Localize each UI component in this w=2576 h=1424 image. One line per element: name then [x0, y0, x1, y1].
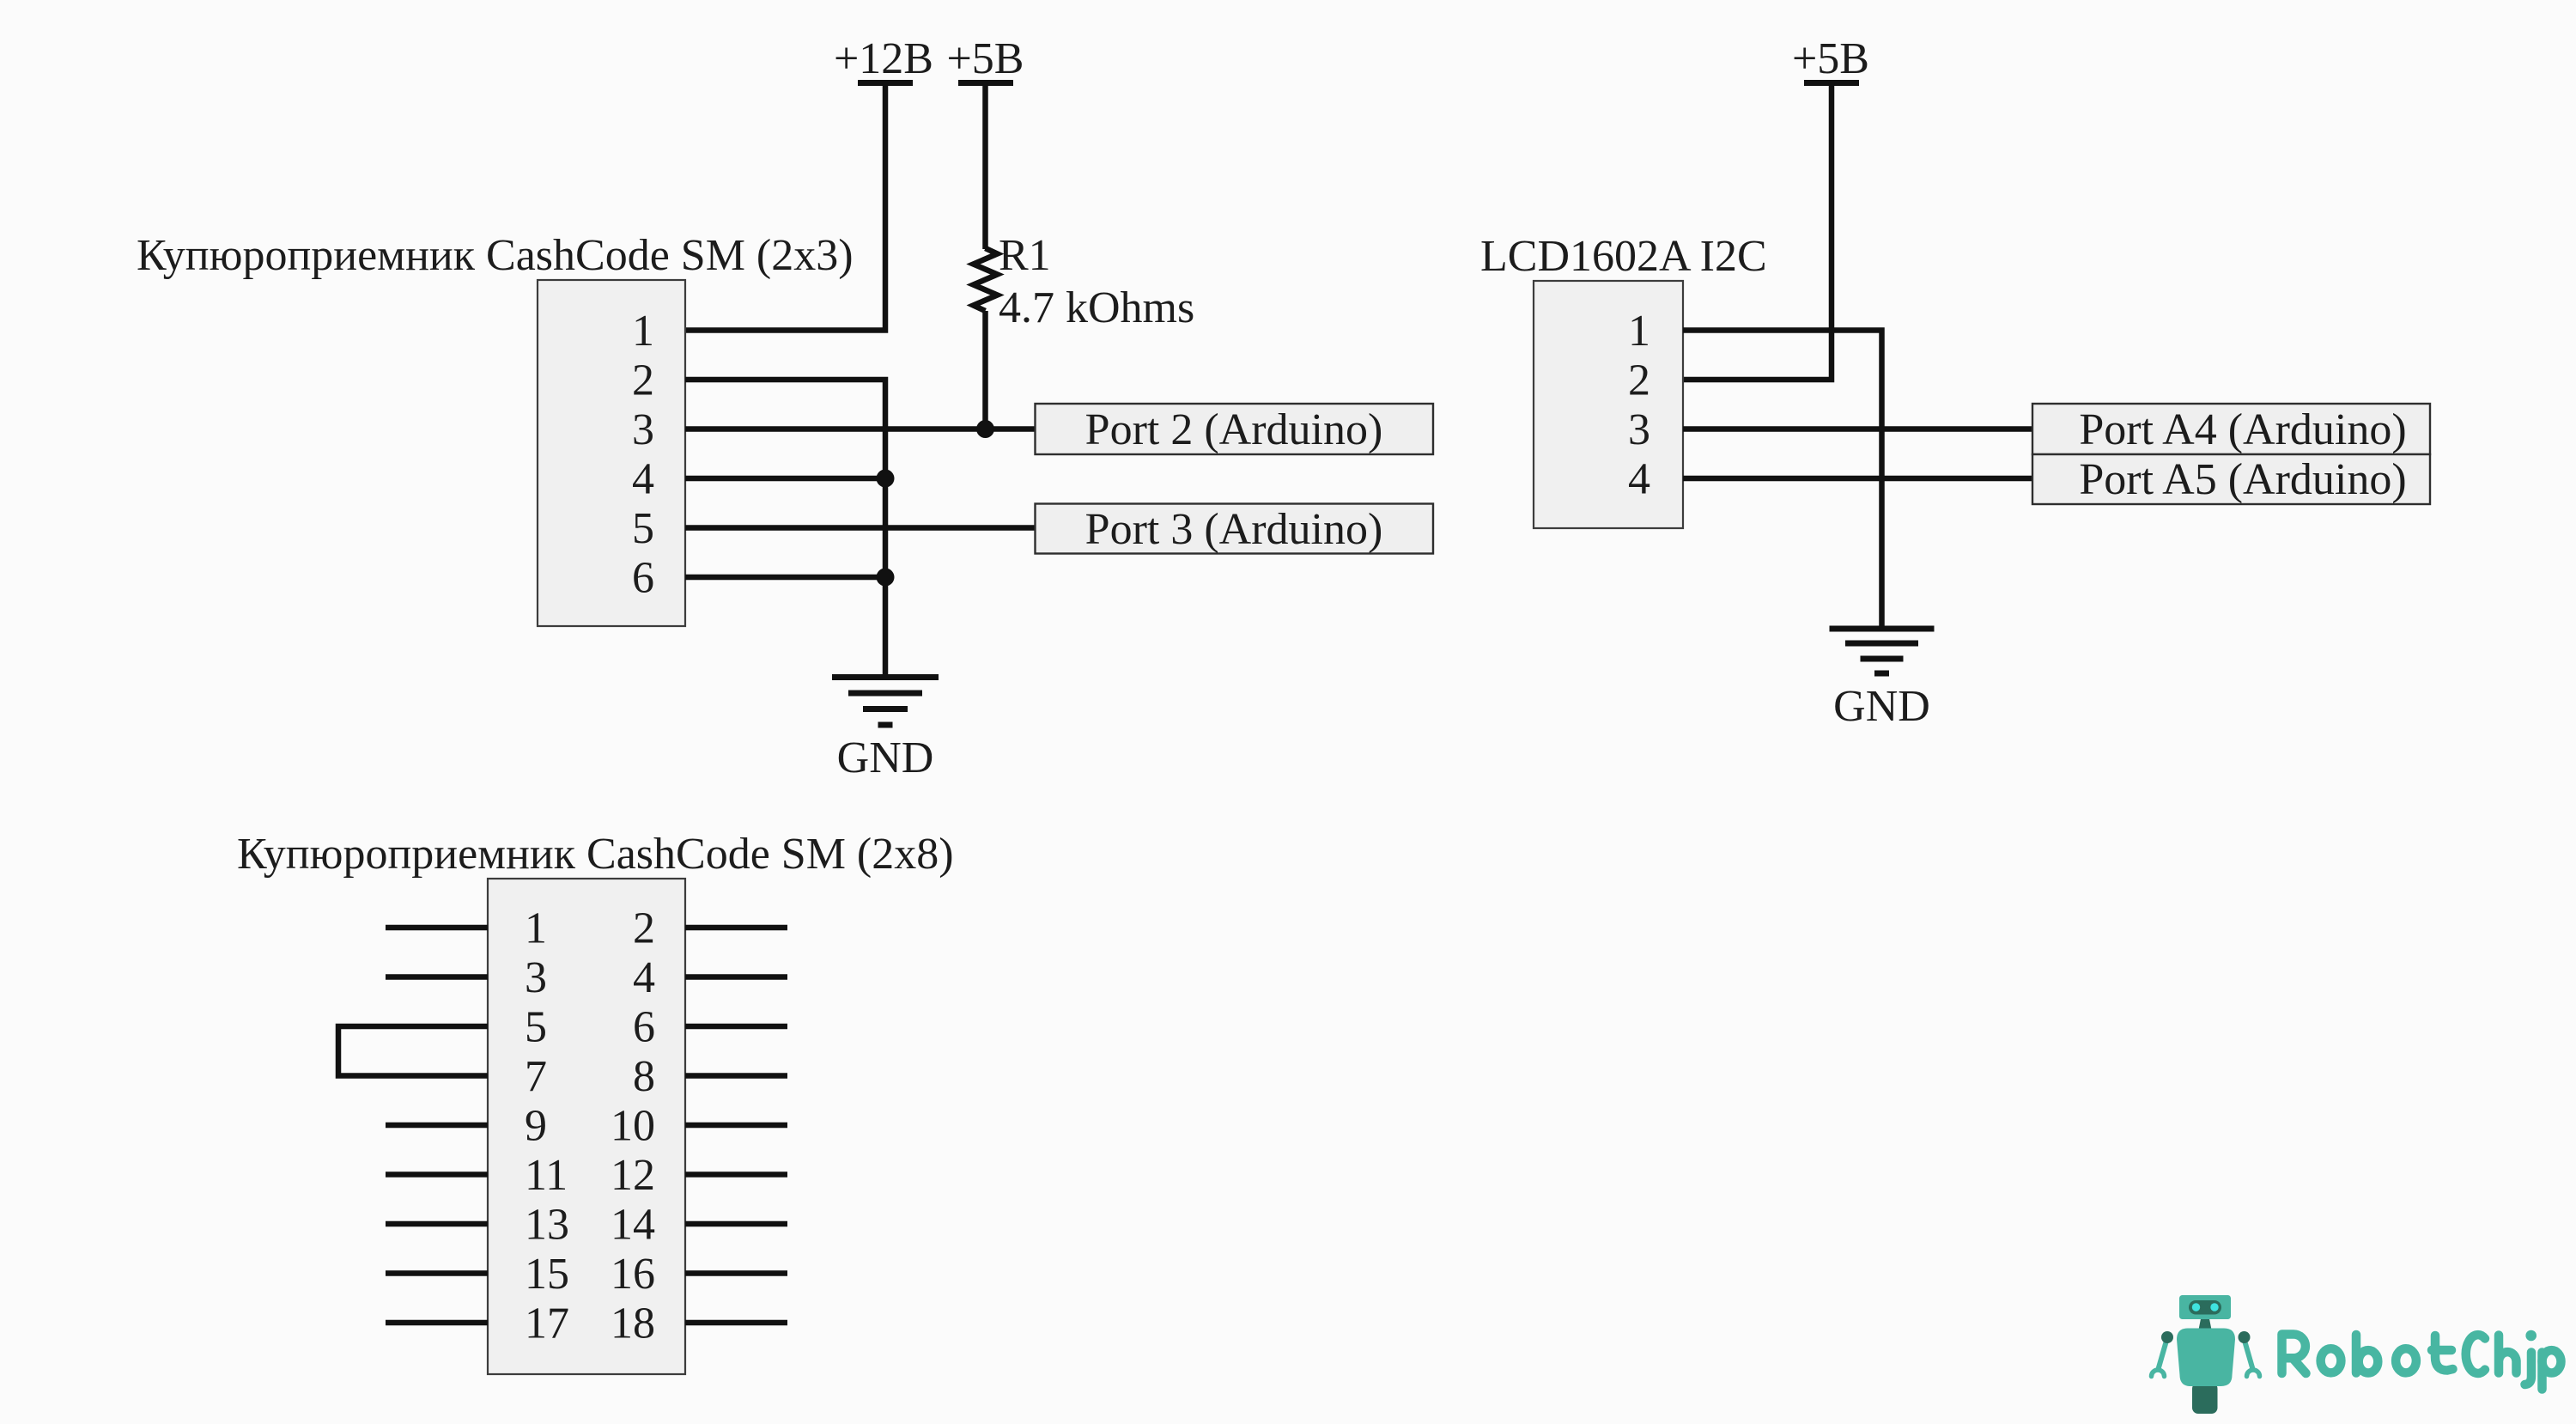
wire pin6 right stub	[685, 1024, 787, 1030]
wire pin4	[685, 476, 885, 482]
svg-text:Port 2 (Arduino): Port 2 (Arduino)	[1085, 405, 1383, 454]
wire pin9 left stub	[386, 1123, 488, 1129]
wire pin4 right stub	[685, 974, 787, 980]
letter R	[2282, 1335, 2306, 1374]
letter o	[2396, 1348, 2416, 1372]
svg-text:5: 5	[525, 1003, 547, 1052]
node junction pin6/gnd	[877, 569, 895, 587]
svg-text:7: 7	[525, 1052, 547, 1101]
wire +5V to resistor	[982, 83, 988, 250]
wire resistor lead to node	[982, 311, 988, 429]
robot head	[2179, 1295, 2231, 1319]
svg-text:R1: R1	[999, 231, 1051, 280]
svg-text:11: 11	[525, 1151, 568, 1200]
svg-text:Купюроприемник CashCode SM (2x: Купюроприемник CashCode SM (2x8)	[237, 830, 954, 879]
svg-text:+5В: +5В	[1792, 34, 1869, 83]
svg-text:Port 3 (Arduino): Port 3 (Arduino)	[1085, 505, 1383, 554]
svg-text:3: 3	[525, 953, 547, 1002]
robot shoulders	[2161, 1331, 2173, 1343]
letter i	[2525, 1353, 2532, 1385]
robot right arm	[2245, 1341, 2253, 1369]
wire pin15 left stub	[386, 1270, 488, 1276]
wire LCD pin3 to Port A4	[1683, 426, 2032, 432]
power +12V symbol	[834, 34, 933, 83]
wire LCD pin1 to ground	[1683, 331, 1882, 630]
svg-text:12: 12	[611, 1151, 655, 1200]
wire pin17 left stub	[386, 1320, 488, 1326]
connector J2 CashCode SM 2x8	[237, 830, 954, 1374]
Port 3 (Arduino) box	[1036, 504, 1434, 555]
wire pin6	[685, 575, 885, 581]
svg-text:Купюроприемник CashCode SM (2x: Купюроприемник CashCode SM (2x3)	[137, 231, 854, 280]
robot left arm	[2159, 1341, 2167, 1369]
letter C	[2466, 1335, 2485, 1373]
wire pin10 right stub	[685, 1123, 787, 1129]
svg-text:18: 18	[611, 1299, 655, 1348]
wire pin1 left stub	[386, 925, 488, 931]
wire pin16 right stub	[685, 1270, 787, 1276]
svg-text:4.7 kOhms: 4.7 kOhms	[999, 283, 1194, 332]
svg-text:9: 9	[525, 1102, 547, 1151]
wire +12V vertical to pin1	[685, 83, 885, 331]
Port 2 (Arduino) box	[1036, 404, 1434, 454]
svg-text:GND: GND	[1833, 682, 1930, 731]
node junction R1/pin3	[976, 420, 994, 438]
svg-text:6: 6	[632, 554, 654, 603]
svg-text:Port A5 (Arduino): Port A5 (Arduino)	[2079, 455, 2406, 504]
wire pin2 to ground	[685, 380, 885, 678]
svg-text:+12В: +12В	[834, 34, 933, 83]
wire +5V right down to LCD pin2	[1683, 83, 1832, 380]
wire pin13 left stub	[386, 1221, 488, 1227]
svg-text:10: 10	[611, 1102, 655, 1151]
robot neck	[2199, 1317, 2212, 1330]
wire pin3 left stub	[386, 974, 488, 980]
wire pin18 right stub	[685, 1320, 787, 1326]
svg-text:2: 2	[633, 904, 655, 953]
svg-text:4: 4	[632, 455, 654, 504]
svg-text:15: 15	[525, 1250, 569, 1299]
svg-text:3: 3	[632, 405, 654, 454]
svg-text:5: 5	[632, 504, 654, 553]
robot right hand	[2247, 1370, 2260, 1377]
wire pin3 to Port 2	[685, 426, 1036, 432]
letter t	[2432, 1336, 2453, 1371]
wire pin5 to Port 3	[685, 525, 1036, 531]
letter b	[2352, 1335, 2361, 1373]
wire pin2 right stub	[685, 925, 787, 931]
wire pin12 right stub	[685, 1171, 787, 1178]
robot body	[2177, 1329, 2235, 1387]
Port A5 (Arduino) box	[2032, 454, 2430, 504]
svg-text:1: 1	[632, 307, 654, 356]
svg-text:+5В: +5В	[946, 34, 1024, 83]
connector LCD1602A I2C	[1480, 232, 1767, 528]
power +5V symbol left	[946, 34, 1024, 83]
robot leg	[2192, 1383, 2218, 1414]
svg-text:1: 1	[525, 904, 547, 953]
wire pin8 right stub	[685, 1073, 787, 1079]
svg-text:3: 3	[1628, 405, 1650, 454]
Port A4 (Arduino) box	[2032, 404, 2430, 454]
svg-text:1: 1	[1628, 307, 1650, 356]
svg-text:2: 2	[632, 356, 654, 405]
svg-text:6: 6	[633, 1003, 655, 1052]
robot left hand	[2152, 1370, 2165, 1377]
svg-text:17: 17	[525, 1299, 569, 1348]
connector J1 CashCode SM 2x3	[137, 231, 854, 626]
svg-text:16: 16	[611, 1250, 655, 1299]
svg-text:4: 4	[633, 953, 655, 1002]
resistor R1	[974, 231, 1195, 332]
svg-text:GND: GND	[837, 733, 934, 782]
svg-text:14: 14	[611, 1201, 655, 1250]
svg-text:Port A4 (Arduino): Port A4 (Arduino)	[2079, 405, 2406, 454]
svg-text:8: 8	[633, 1052, 655, 1101]
ground symbol right	[1830, 629, 1935, 731]
node junction pin4/gnd	[877, 470, 895, 488]
letter h	[2499, 1336, 2517, 1373]
wire jumper pin5 to pin7	[338, 1026, 488, 1076]
letter o	[2321, 1348, 2342, 1372]
wire pin11 left stub	[386, 1171, 488, 1178]
letter p	[2537, 1353, 2547, 1390]
robot visor	[2189, 1300, 2221, 1315]
wire LCD pin4 to Port A5	[1683, 476, 2032, 482]
robot eyes	[2192, 1303, 2200, 1311]
svg-text:LCD1602A I2C: LCD1602A I2C	[1480, 232, 1767, 281]
logo robot icon	[2152, 1295, 2260, 1414]
power +5V symbol right	[1792, 34, 1869, 83]
svg-text:4: 4	[1628, 455, 1650, 504]
svg-text:13: 13	[525, 1201, 569, 1250]
logo wordmark RobotChip	[2282, 1330, 2561, 1390]
svg-text:2: 2	[1628, 356, 1650, 405]
ground symbol left	[832, 678, 939, 783]
wire pin14 right stub	[685, 1221, 787, 1227]
